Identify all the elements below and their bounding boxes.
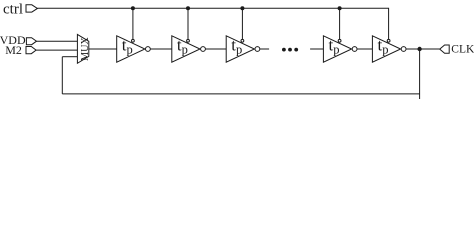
port VDD pin bbox=[26, 38, 36, 45]
buffer B2 control bubble bbox=[187, 39, 190, 42]
wire B5 to CLK bbox=[406, 48, 440, 50]
svg-text:CLK: CLK bbox=[451, 44, 474, 56]
ellipsis dot 1 bbox=[282, 48, 286, 52]
wire B2 to B3 bbox=[206, 48, 227, 50]
buffer B3 bbox=[226, 36, 254, 62]
wire B3 to ellipsis bbox=[260, 48, 269, 50]
svg-text:M2: M2 bbox=[5, 43, 22, 57]
buffer B4 bbox=[323, 36, 351, 62]
buffer B3 output bubble bbox=[255, 47, 260, 52]
buffer B5 control bubble bbox=[387, 39, 390, 42]
wire feedback stub to MUX bbox=[62, 56, 77, 58]
junction dot ctrl-B2 bbox=[186, 6, 190, 10]
buffer B4 control bubble bbox=[338, 39, 341, 42]
buffer B1 bbox=[117, 36, 145, 62]
wire ctrl drop to B1 bbox=[132, 8, 134, 39]
buffer B5 bbox=[372, 36, 400, 62]
ellipsis dot 3 bbox=[294, 48, 298, 52]
buffer B2 output bubble bbox=[201, 47, 206, 52]
wire B1 to B2 bbox=[150, 48, 171, 50]
mux U1 bbox=[77, 34, 88, 63]
wire ctrl drop to B3 bbox=[241, 8, 243, 39]
buffer B1 control bubble bbox=[132, 39, 135, 42]
buffer B2 bbox=[172, 36, 200, 62]
wire ctrl drop to B4 bbox=[339, 8, 341, 39]
wire B4 to B5 bbox=[357, 48, 372, 50]
wire VDD to MUX bbox=[37, 40, 78, 42]
buffer B3 control bubble bbox=[241, 39, 244, 42]
junction dot ctrl-B4 bbox=[338, 6, 342, 10]
port CLK pin bbox=[440, 45, 450, 53]
wire MUX output to B1 bbox=[89, 48, 117, 50]
wire feedback riser right bbox=[419, 49, 421, 99]
ellipsis dot 2 bbox=[288, 48, 292, 52]
junction dot ctrl-B1 bbox=[131, 6, 135, 10]
junction dot ctrl-B3 bbox=[240, 6, 244, 10]
svg-text:ctrl: ctrl bbox=[3, 1, 23, 17]
port ctrl pin bbox=[26, 5, 37, 12]
wire ellipsis to B4 bbox=[310, 48, 323, 50]
wire ctrl drop to B2 bbox=[187, 8, 189, 39]
port M2 pin bbox=[26, 47, 36, 54]
buffer B4 output bubble bbox=[352, 47, 357, 52]
wire M2 to MUX bbox=[36, 49, 77, 51]
buffer B1 output bubble bbox=[146, 47, 151, 52]
wire ctrl top rail bbox=[37, 8, 388, 39]
junction dot feedback tap bbox=[417, 47, 421, 51]
wire feedback bottom rail bbox=[62, 93, 419, 95]
buffer B5 output bubble bbox=[401, 47, 406, 52]
wire feedback riser left bbox=[61, 57, 63, 94]
